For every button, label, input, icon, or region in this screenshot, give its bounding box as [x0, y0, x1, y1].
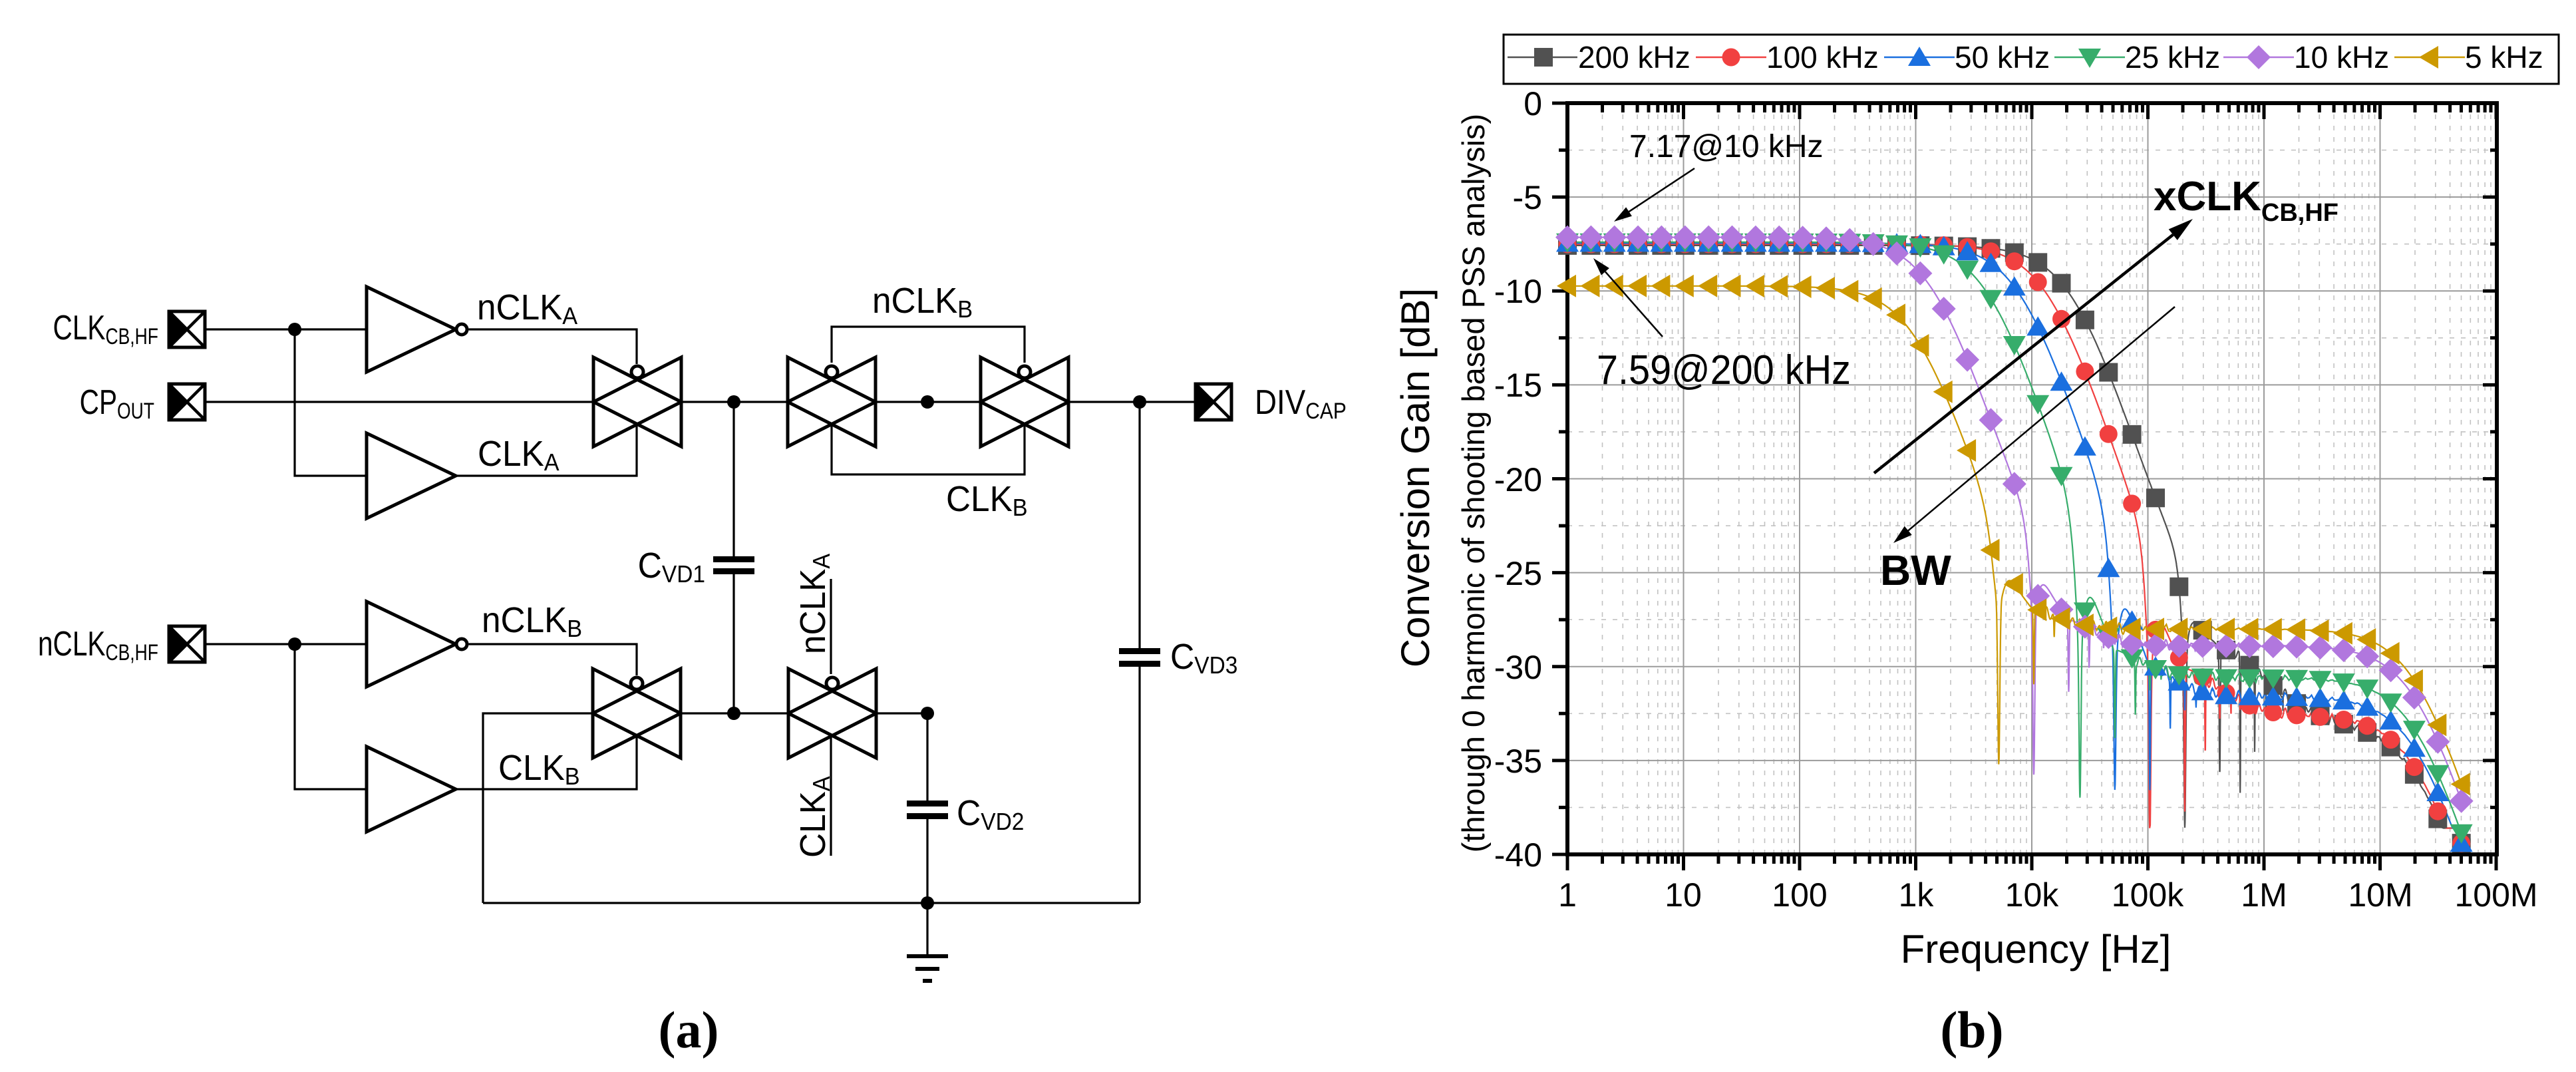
wire nCLK_CB,HF to node B: [205, 643, 367, 645]
svg-text:nCLKB: nCLKB: [482, 600, 582, 642]
svg-text:1M: 1M: [2241, 876, 2287, 914]
svg-text:1: 1: [1558, 876, 1577, 914]
svg-text:CVD1: CVD1: [638, 546, 705, 588]
data curve 200 kHz: [1567, 246, 2460, 828]
svg-text:nCLKCB,HF: nCLKCB,HF: [38, 624, 158, 665]
svg-text:100: 100: [1772, 876, 1827, 914]
svg-text:5 kHz: 5 kHz: [2465, 40, 2543, 75]
data curve 50 kHz: [1567, 243, 2461, 828]
svg-text:1k: 1k: [1899, 876, 1935, 914]
svg-text:10: 10: [1665, 876, 1702, 914]
svg-text:100k: 100k: [2112, 876, 2184, 914]
transmission gate TG4: [788, 669, 876, 758]
wire CLK_B bracket TG2-TG3 bottom gates: [832, 425, 1025, 474]
svg-text:100 kHz: 100 kHz: [1766, 40, 1879, 75]
annotation arrow BW (thin): [1908, 307, 2175, 530]
svg-text:10 kHz: 10 kHz: [2294, 40, 2389, 75]
svg-text:-10: -10: [1494, 273, 1542, 310]
terminal DIV_CAP: [1195, 383, 1231, 421]
svg-text:DIVCAP: DIVCAP: [1255, 383, 1347, 423]
node V2 junction: [921, 395, 934, 409]
capacitor C_VD3: [1119, 402, 1160, 903]
svg-text:CVD2: CVD2: [957, 793, 1024, 835]
svg-text:-25: -25: [1494, 555, 1542, 592]
svg-text:7.17@10 kHz: 7.17@10 kHz: [1629, 129, 1824, 164]
inverter A (nCLK_A): [367, 287, 467, 372]
svg-text:7.59@200 kHz: 7.59@200 kHz: [1597, 347, 1851, 393]
svg-text:CLKB: CLKB: [498, 748, 580, 790]
wire nCLK_A to TG1 top gate: [469, 329, 637, 364]
transmission gate TG1: [593, 357, 681, 447]
svg-text:(b): (b): [1940, 1001, 2003, 1059]
wire node B down to buffer B input: [295, 644, 367, 789]
node V1 junction: [727, 395, 740, 409]
annotation arrow xCLK (thick): [1874, 235, 2173, 473]
wire nCLK_B bracket TG2-TG3 top gates: [832, 327, 1025, 363]
legend entries: [1508, 40, 1690, 75]
capacitor C_VD2: [907, 713, 948, 903]
wire TG2 to TG3: [876, 401, 981, 403]
svg-text:nCLKA: nCLKA: [793, 553, 835, 654]
data markers 50 kHz: [1556, 232, 2473, 852]
buffer A (CLK_A): [367, 433, 456, 518]
terminal CP_OUT: [168, 383, 205, 421]
wire TG1 to TG2: [681, 401, 788, 403]
axis ticks: [1552, 103, 2496, 870]
svg-text:CPOUT: CPOUT: [80, 383, 154, 424]
major gridlines: [1567, 103, 2497, 854]
data markers 100 kHz: [1559, 235, 2471, 852]
wire CLK_A to TG1 bottom gate: [456, 425, 637, 476]
legend box: [1504, 35, 2559, 84]
svg-text:10M: 10M: [2348, 876, 2412, 914]
wire CLK_CB,HF to node A: [205, 328, 367, 330]
capacitor C_VD1: [713, 402, 754, 713]
node A junction: [288, 323, 301, 336]
wire TG1B input from bottom rail: [483, 713, 593, 903]
buffer B (CLK_B): [367, 747, 456, 832]
wire TG4 bottom gate (CLK_A): [830, 736, 832, 856]
svg-text:nCLKA: nCLKA: [477, 287, 578, 329]
data curve 5 kHz: [1567, 286, 2461, 783]
svg-text:-5: -5: [1513, 179, 1542, 216]
svg-text:10k: 10k: [2005, 876, 2060, 914]
wire CP_OUT to TG1: [205, 401, 593, 403]
svg-text:0: 0: [1524, 85, 1542, 122]
inverter B (nCLK_B): [367, 602, 467, 687]
data markers 25 kHz: [1556, 234, 2473, 844]
node GND junction: [921, 896, 934, 910]
svg-text:(through 0 harmonic of shootin: (through 0 harmonic of shooting based PS…: [1456, 114, 1491, 852]
terminal nCLK_CB,HF: [168, 625, 205, 663]
wire TG4 to C_VD2: [876, 712, 927, 714]
svg-text:-40: -40: [1494, 836, 1542, 874]
svg-text:xCLKCB,HF: xCLKCB,HF: [2154, 174, 2338, 227]
wire TG4 top gate (nCLK_A): [830, 579, 832, 674]
svg-text:200 kHz: 200 kHz: [1578, 40, 1690, 75]
svg-text:-15: -15: [1494, 367, 1542, 404]
plot frame: [1567, 103, 2497, 854]
svg-text:(a): (a): [659, 1001, 719, 1059]
data curve 100 kHz: [1567, 244, 2461, 828]
svg-text:nCLKB: nCLKB: [872, 281, 973, 323]
svg-text:25 kHz: 25 kHz: [2125, 40, 2220, 75]
svg-text:CLKCB,HF: CLKCB,HF: [53, 308, 158, 349]
svg-text:CLKA: CLKA: [793, 776, 835, 858]
svg-text:Conversion Gain [dB]: Conversion Gain [dB]: [1393, 288, 1438, 667]
node V1B junction: [727, 707, 740, 720]
svg-text:-35: -35: [1494, 743, 1542, 780]
ground symbol: [907, 903, 948, 981]
svg-text:BW: BW: [1880, 546, 1951, 594]
wire nCLK_B to TG1B top gate: [469, 644, 637, 675]
svg-text:50 kHz: 50 kHz: [1955, 40, 2050, 75]
svg-text:-30: -30: [1494, 649, 1542, 686]
transmission gate TG3: [981, 357, 1068, 447]
data curve 25 kHz: [1567, 242, 2461, 828]
node V3 junction: [1133, 395, 1146, 409]
svg-text:CLKB: CLKB: [946, 479, 1028, 521]
wire TG3 to DIV_CAP: [1068, 401, 1196, 403]
wire CLK_B to TG1B bottom gate: [456, 736, 637, 789]
data markers 5 kHz: [1557, 275, 2470, 796]
svg-text:CLKA: CLKA: [478, 434, 560, 476]
data curve 10 kHz: [1567, 238, 2461, 799]
transmission gate TG1B: [593, 669, 681, 758]
transmission gate TG2: [788, 357, 876, 447]
wire bottom rail: [483, 902, 1140, 904]
terminal CLK_CB,HF: [168, 311, 205, 348]
node B junction: [288, 637, 301, 651]
node V2B junction: [921, 707, 934, 720]
svg-text:100M: 100M: [2454, 876, 2537, 914]
svg-text:CVD3: CVD3: [1170, 637, 1237, 679]
wire node A down to buffer A input: [295, 329, 367, 476]
data markers 200 kHz: [1558, 236, 2471, 852]
wire TG1B to TG4: [681, 712, 788, 714]
svg-text:Frequency [Hz]: Frequency [Hz]: [1901, 927, 2172, 972]
data markers 10 kHz: [1555, 226, 2474, 813]
minor gridlines: [1567, 103, 2497, 854]
svg-text:-20: -20: [1494, 461, 1542, 498]
